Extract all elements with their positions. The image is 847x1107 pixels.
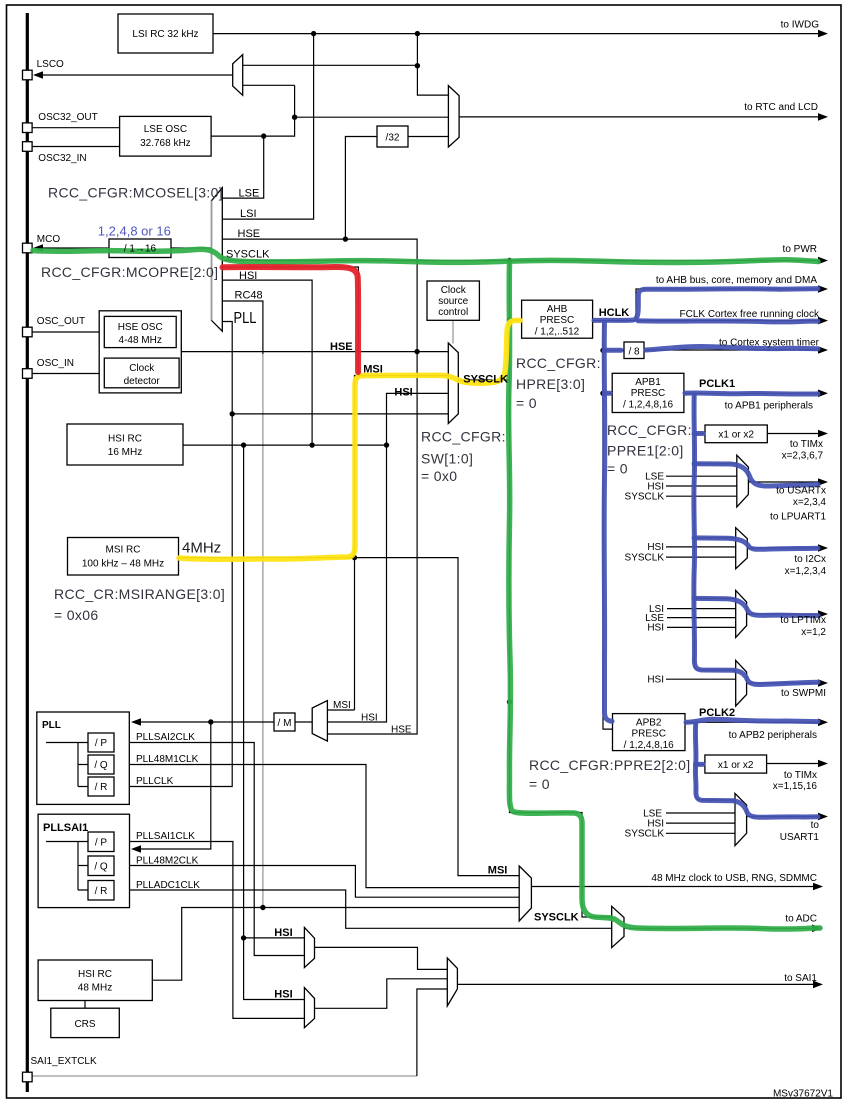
blue highlight: PCLK1 line (605, 393, 819, 394)
svg-text:to I2Cx: to I2Cx (794, 554, 826, 565)
wire: MCO output through prescaler to MCO port (36, 247, 212, 249)
svg-text:MCO: MCO (37, 234, 61, 245)
port LSCO (23, 70, 33, 80)
svg-text:4MHz: 4MHz (182, 540, 221, 557)
wire: /32 divider output to RTC mux (408, 136, 448, 138)
yellow highlight: MSI to SYSCLK trace (179, 320, 520, 559)
mux: I2Cx clock selector (736, 528, 748, 569)
svg-text:32.768 kHz: 32.768 kHz (140, 138, 191, 149)
mux: LSCO selector (233, 55, 243, 96)
wire: PLL input of SYSCLK mux (232, 413, 448, 415)
svg-text:to SAI1: to SAI1 (784, 973, 817, 984)
svg-text:to LPUART1: to LPUART1 (770, 512, 826, 523)
wire: HSI branch to MCOSEL mux (222, 280, 312, 445)
svg-text:SW[1:0]: SW[1:0] (421, 451, 473, 467)
wire: HCLK line (FCLK output) (593, 320, 820, 322)
blue highlight: USART1 mux output (734, 801, 818, 817)
svg-text:HSE: HSE (238, 228, 261, 240)
wire: OSC_OUT to HSE OSC (32, 331, 99, 333)
svg-text:x1 or x2: x1 or x2 (718, 760, 754, 771)
wire: PLLSAI1CLK from PLLSAI1 /P to SAI premux 2 (114, 842, 304, 1019)
blue highlight: PCLK2 rail to USART1 mux (695, 724, 733, 801)
svg-text:HSI: HSI (274, 927, 292, 939)
svg-text:PRESC: PRESC (631, 388, 665, 399)
svg-text:to Cortex system timer: to Cortex system timer (719, 338, 820, 349)
svg-text:OSC32_IN: OSC32_IN (38, 153, 86, 164)
box: APB2 PRESC (613, 714, 686, 751)
svg-text:RCC_CR:MSIRANGE[3:0]: RCC_CR:MSIRANGE[3:0] (54, 586, 225, 602)
wire: LSCO mux input 2 (LSE) (243, 84, 295, 86)
svg-text:PCLK1: PCLK1 (699, 378, 735, 390)
svg-text:APB2: APB2 (636, 718, 662, 729)
svg-text:to APB2 peripherals: to APB2 peripherals (729, 730, 817, 741)
svg-text:16 MHz: 16 MHz (108, 447, 142, 458)
wire: MSI up to SYSCLK mux input (355, 376, 449, 711)
port OSC32_IN (23, 142, 33, 152)
svg-text:= 0x06: = 0x06 (54, 607, 99, 623)
box: CRS (51, 1008, 120, 1037)
svg-text:OSC32_OUT: OSC32_OUT (38, 112, 97, 123)
svg-text:/ R: / R (95, 886, 108, 897)
wire: I2C mux PCLK1 input (694, 537, 735, 539)
svg-text:48 MHz clock to USB, RNG, SDMM: 48 MHz clock to USB, RNG, SDMMC (651, 873, 817, 884)
svg-text:to TIMx: to TIMx (784, 770, 817, 781)
wire: LSI branch down to MCOSEL mux LSI input (222, 34, 313, 220)
svg-text:x=2,3,4: x=2,3,4 (793, 497, 827, 508)
wire: APB1 PRESC input (603, 392, 612, 394)
box: /M divider (274, 713, 295, 731)
wire: x1 or x2 output to TIMx (767, 433, 820, 435)
svg-text:to APB1 peripherals: to APB1 peripherals (725, 401, 813, 412)
wire: PLL block internal feed (46, 743, 88, 787)
port SAI1_EXTCLK (23, 1072, 33, 1082)
svg-text:PRESC: PRESC (631, 729, 665, 740)
svg-text:SYSCLK: SYSCLK (226, 249, 270, 261)
mux: PLL source selector (312, 701, 327, 742)
mux: USARTx clock selector (737, 455, 749, 507)
mux MCOSEL gray left edge (211, 201, 213, 321)
svg-text:source: source (438, 296, 468, 307)
wire: x1 or x2 input (APB1) (694, 433, 705, 435)
svg-text:x=1,15,16: x=1,15,16 (773, 781, 818, 792)
blue highlight: LPTIM mux branch and output (694, 598, 818, 615)
svg-text:MSI: MSI (333, 700, 351, 711)
svg-text:PLLADC1CLK: PLLADC1CLK (136, 880, 200, 891)
svg-text:/ 1,2,4,8,16: / 1,2,4,8,16 (624, 740, 674, 751)
wire: x1 or x2 input (APB2) (696, 763, 705, 765)
wire: /8 divider output to Cortex system timer (644, 349, 820, 351)
box: LSI RC 32 kHz oscillator (118, 14, 213, 53)
wire: USART1 mux LSE/HSI/SYSCLK stubs (666, 813, 735, 833)
wire: USART1 mux output (747, 816, 820, 818)
green highlight: SYSCLK rail down to ADC (509, 264, 820, 929)
box: MCO prescaler /1..16 (109, 239, 171, 258)
svg-text:/ P: / P (95, 838, 108, 849)
svg-text:PLLSAI1: PLLSAI1 (43, 822, 88, 834)
svg-text:PPRE1[2:0]: PPRE1[2:0] (607, 443, 684, 459)
svg-text:48 MHz: 48 MHz (78, 983, 112, 994)
wire: PCLK1 rail down to SWPMI mux (694, 393, 735, 670)
wire: SWPMI mux output (747, 682, 820, 684)
mux: 48 MHz clock selector (519, 866, 531, 921)
wire: branch down into PLLSAI1 block (140, 722, 211, 849)
blue highlight: HCLK to AHB bus (594, 289, 818, 321)
box: MSI RC (68, 538, 179, 576)
svg-text:/ 1,2,..512: / 1,2,..512 (535, 327, 580, 338)
svg-text:HSI: HSI (361, 713, 378, 724)
box: HSI RC 48 MHz (38, 960, 152, 1001)
svg-text:SAI1_EXTCLK: SAI1_EXTCLK (31, 1056, 97, 1067)
box: PLLSAI1 /R divider (88, 881, 114, 901)
svg-text:MSI: MSI (363, 364, 383, 376)
svg-text:/ P: / P (95, 738, 108, 749)
svg-text:PLLCLK: PLLCLK (136, 776, 174, 787)
wire: RC48/HSI48 vertical (gray part) (262, 354, 264, 907)
wire: HSI down to PLL source mux input (327, 445, 386, 722)
box: PLLSAI1 block (38, 814, 129, 907)
svg-text:x=2,3,6,7: x=2,3,6,7 (782, 451, 824, 462)
blue highlight: I2C mux branch and output (694, 538, 818, 549)
port OSC32_OUT (23, 123, 33, 133)
blue highlight: FCLK line (638, 321, 818, 322)
wire: /M output into PLL block (140, 721, 295, 723)
wire: PLLCLK up to MCOSEL mux and to SYSCLK mux (114, 322, 232, 787)
wire: PLL source mux output to /M divider (295, 721, 312, 723)
svg-text:PLL: PLL (234, 310, 257, 327)
wire: MSI input of PLL source mux (327, 709, 354, 711)
wire: SYSCLK rail down to ADC mux (510, 261, 612, 918)
svg-text:x=1,2: x=1,2 (801, 627, 826, 638)
svg-text:RCC_CFGR:: RCC_CFGR: (607, 422, 692, 438)
svg-text:detector: detector (124, 376, 161, 387)
svg-text:to AHB bus, core, memory and D: to AHB bus, core, memory and DMA (656, 275, 818, 286)
svg-text:= 0: = 0 (516, 395, 537, 411)
wire: PLLSAI2CLK from PLL /P to SAI premux 1 (114, 743, 304, 956)
svg-text:100 kHz – 48 MHz: 100 kHz – 48 MHz (82, 559, 164, 570)
svg-text:LSE: LSE (239, 188, 260, 200)
wire: HSI down to SAI premuxes (244, 445, 305, 999)
wire: HSE down to PLL source mux (327, 352, 417, 734)
box: LSE OSC 32.768 kHz (120, 116, 212, 156)
svg-text:OSC_IN: OSC_IN (37, 358, 74, 369)
arrowheads right-pointing (812, 30, 828, 988)
wire: LPTIM mux output (747, 613, 820, 615)
svg-text:RC48: RC48 (235, 290, 263, 302)
wire: PLLADC1CLK from PLLSAI1 /R to ADC mux (114, 890, 612, 928)
mux: SAI premux 1 (304, 927, 314, 967)
svg-text:HSI RC: HSI RC (108, 434, 142, 445)
svg-text:AHB: AHB (547, 304, 568, 315)
svg-text:HSI: HSI (239, 270, 257, 282)
mux: ADC clock selector (612, 906, 624, 947)
wire: PCLK1 output line (684, 392, 820, 394)
wire: OSC32_OUT to LSE OSC (32, 127, 120, 129)
wire: AHB PRESC input from SYSCLK rail (510, 319, 522, 321)
wire: SAI premux2 output to SAI output mux (315, 979, 448, 1009)
svg-text:SYSCLK: SYSCLK (625, 492, 665, 503)
svg-text:to PWR: to PWR (783, 244, 817, 255)
wire: OSC_IN to HSE OSC (32, 373, 99, 375)
svg-text:to IWDG: to IWDG (781, 20, 820, 31)
wire: SWPMI mux HSI stub (666, 678, 736, 680)
svg-text:RCC_CFGR:: RCC_CFGR: (421, 429, 506, 445)
svg-text:to RTC and LCD: to RTC and LCD (744, 102, 818, 113)
svg-text:to: to (811, 820, 820, 831)
svg-text:USART1: USART1 (780, 832, 820, 843)
svg-text:to SWPMI: to SWPMI (781, 688, 826, 699)
svg-text:HSE: HSE (391, 725, 412, 736)
mux: USART1 clock selector (735, 793, 747, 845)
box: /32 divider (377, 126, 408, 147)
wire: LSE line to RTC mux (295, 116, 449, 118)
svg-text:PLL48M2CLK: PLL48M2CLK (136, 856, 199, 867)
wire: USART mux LSE/HSI/SYSCLK stubs (666, 476, 737, 496)
svg-text:RCC_CFGR:MCOSEL[3:0]: RCC_CFGR:MCOSEL[3:0] (48, 185, 223, 201)
box: Clock source control (427, 281, 479, 320)
box: x1 or x2 (APB2 timers) (705, 755, 767, 773)
svg-text:/ M: / M (278, 718, 292, 729)
svg-text:/32: /32 (386, 133, 400, 144)
wire: LSE OSC output (211, 85, 295, 136)
svg-text:HSI: HSI (647, 675, 664, 686)
wire: LSCO mux input 1 (LSI) (243, 64, 418, 66)
svg-text:HSI: HSI (647, 623, 664, 634)
box: APB1 PRESC (612, 373, 684, 412)
svg-text:LSE OSC: LSE OSC (144, 124, 187, 135)
wire: HSI input of SAI premux 1 (244, 937, 305, 939)
wire: HSI48 RC output to 48MHz mux (152, 908, 519, 981)
wire: HSI up to SYSCLK mux input (387, 393, 449, 445)
box: /8 divider (624, 342, 644, 359)
wire: SAI premux1 output to SAI output mux (315, 947, 448, 969)
wire: LSCO mux output to LSCO port (36, 74, 233, 76)
box: Clock detector (104, 358, 179, 388)
svg-text:1,2,4,8 or 16: 1,2,4,8 or 16 (98, 224, 171, 239)
blue highlight: x1 or x2 stub (APB1) (694, 431, 703, 436)
wire: PCLK2 output line (685, 721, 820, 723)
svg-text:Clock: Clock (129, 363, 155, 374)
mux: SWPMI clock selector (736, 660, 747, 706)
box: PLL /Q divider (88, 755, 114, 774)
svg-text:RCC_CFGR:MCOPRE[2:0]: RCC_CFGR:MCOPRE[2:0] (41, 264, 218, 280)
svg-text:/ 1→16: / 1→16 (124, 244, 157, 255)
svg-text:MSI RC: MSI RC (106, 545, 141, 556)
svg-text:LSI RC 32 kHz: LSI RC 32 kHz (132, 29, 198, 40)
svg-text:PCLK2: PCLK2 (699, 707, 735, 719)
wire: PLLSAI1 block internal feed (46, 842, 88, 891)
mux: SAI premux 2 (304, 988, 314, 1028)
wire: LSE branch down to MCOSEL mux LSE input (222, 136, 263, 198)
svg-text:HSE OSC: HSE OSC (118, 322, 163, 333)
svg-text:CRS: CRS (74, 1019, 95, 1030)
wire: LPTIM mux PCLK1 input (694, 597, 735, 599)
box: HSE oscillator outer (99, 311, 181, 393)
box: PLL /P divider (88, 733, 114, 752)
wire: USART mux PCLK1 input (694, 463, 736, 465)
blue highlight: /8 to Cortex system timer (605, 346, 819, 350)
wire: HCLK rail down to APB2 PRESC (603, 321, 613, 729)
svg-text:to TIMx: to TIMx (790, 439, 823, 450)
svg-text:to USARTx: to USARTx (776, 486, 826, 497)
wire: LSI branch to RTC mux input (417, 34, 448, 96)
svg-text:SYSCLK: SYSCLK (534, 912, 579, 924)
wire: I2C mux HSI/SYSCLK stubs (666, 547, 736, 557)
wire: ADC mux output (624, 927, 814, 929)
svg-text:Clock: Clock (441, 285, 467, 296)
wire: branch up to AHB bus output (636, 289, 820, 321)
svg-text:/ Q: / Q (94, 862, 108, 873)
svg-text:x=1,2,3,4: x=1,2,3,4 (785, 566, 827, 577)
blue highlight: HCLK rail down to APB2 (604, 323, 612, 721)
wire: x1 or x2 output to TIMx (APB2) (767, 763, 820, 765)
box: PLLSAI1 /Q divider (88, 856, 114, 876)
wire: CRS link to HSI48 (84, 1001, 86, 1009)
wire: RTC mux output to RTC and LCD (459, 116, 820, 118)
wire: OSC32_IN to LSE OSC (32, 146, 120, 148)
port MCO (23, 243, 33, 253)
svg-text:HSE: HSE (330, 341, 353, 353)
port OSC_IN (23, 369, 33, 379)
port OSC_OUT (23, 327, 33, 337)
box: PLLSAI1 /P divider (88, 832, 114, 852)
svg-text:PLLSAI2CLK: PLLSAI2CLK (136, 732, 195, 743)
arrowheads left-pointing (33, 71, 141, 853)
wire: PLL48M2CLK from PLLSAI1 /Q to 48MHz mux (114, 866, 519, 898)
wire: MSI RC output line to 48MHz mux (179, 558, 520, 876)
blue highlight: PCLK1 rail to SWPMI mux (694, 396, 734, 671)
svg-text:to LPTIMx: to LPTIMx (780, 615, 826, 626)
svg-text:HSI: HSI (274, 989, 292, 1001)
wire: 48MHz mux output to USB RNG SDMMC (531, 886, 815, 888)
mux: RTC and LCD clock selector (448, 86, 459, 147)
svg-text:MSv37672V1: MSv37672V1 (773, 1089, 833, 1100)
box: AHB PRESC (522, 300, 593, 338)
blue highlight: SWPMI mux output (735, 671, 818, 685)
svg-text:LSCO: LSCO (37, 59, 64, 70)
wire: SYSCLK stub into ADC mux (588, 916, 612, 918)
box: PLL block (37, 712, 130, 804)
svg-text:HPRE[3:0]: HPRE[3:0] (516, 376, 585, 392)
wire: USART mux output (748, 481, 820, 483)
wire: SAI1_EXTCLK line (gray) (32, 1075, 417, 1077)
svg-text:PLL48M1CLK: PLL48M1CLK (136, 754, 199, 765)
blue highlight: x1 or x2 stub (APB2) (696, 762, 703, 767)
svg-text:SYSCLK: SYSCLK (625, 552, 665, 563)
wire: HSI RC output line (183, 444, 387, 446)
box: HSE OSC 4-48 MHz (104, 316, 176, 347)
chip boundary line (26, 13, 29, 1092)
svg-text:PRESC: PRESC (540, 315, 574, 326)
box: HSI RC 16 MHz (67, 424, 183, 465)
mux: SAI1 output selector (447, 958, 457, 1006)
svg-text:to ADC: to ADC (785, 914, 817, 925)
box: x1 or x2 (APB1 timers) (705, 425, 767, 443)
wire: MCOSEL HSE input from HSE line (222, 239, 417, 352)
svg-text:RCC_CFGR:PPRE2[2:0]: RCC_CFGR:PPRE2[2:0] (529, 757, 690, 773)
wire: SAI output mux output to SAI1 (457, 983, 815, 985)
svg-text:HCLK: HCLK (599, 307, 630, 319)
svg-text:PLL: PLL (42, 720, 61, 731)
mux: MCOSEL selector (212, 188, 223, 332)
mux: SYSCLK source selector (448, 343, 458, 424)
wire: I2C mux output (747, 547, 820, 549)
svg-text:/ Q: / Q (94, 760, 108, 771)
svg-text:SYSCLK: SYSCLK (625, 829, 665, 840)
svg-text:= 0x0: = 0x0 (421, 468, 457, 484)
svg-text:/ R: / R (95, 782, 108, 793)
svg-text:HSI RC: HSI RC (78, 969, 112, 980)
wire: /8 divider input (603, 349, 624, 351)
wire: clock source control link (gray) (452, 320, 454, 343)
wire: LPTIM mux LSI/LSE/HSI stubs (667, 609, 736, 628)
wire: SYSCLK mux output to rail (458, 379, 509, 381)
svg-text:FCLK Cortex free running clock: FCLK Cortex free running clock (679, 309, 820, 320)
svg-text:= 0: = 0 (607, 461, 628, 477)
svg-text:LSI: LSI (240, 208, 257, 220)
svg-text:HSI: HSI (394, 387, 412, 399)
svg-text:/ 8: / 8 (628, 347, 640, 358)
wire: SYSCLK line to MCOSEL and to PWR (222, 260, 820, 262)
svg-text:= 0: = 0 (529, 776, 550, 792)
svg-text:PLLSAI1CLK: PLLSAI1CLK (136, 831, 195, 842)
blue highlight: PCLK2 line (686, 719, 818, 722)
wire: MSI branch to MCOSEL mux (222, 267, 358, 376)
svg-text:x1 or x2: x1 or x2 (718, 430, 754, 441)
svg-text:OSC_OUT: OSC_OUT (37, 316, 85, 327)
svg-text:APB1: APB1 (635, 377, 661, 388)
mux: LPTIMx clock selector (736, 590, 747, 637)
svg-text:MSI: MSI (488, 865, 508, 877)
wire: HSE OSC output to SYSCLK mux (181, 351, 448, 353)
green highlight: SYSCLK trace MCO to PWR (33, 249, 818, 262)
red highlight: MSI to MCO trace (223, 267, 359, 372)
svg-text:4-48 MHz: 4-48 MHz (119, 335, 162, 346)
svg-text:SYSCLK: SYSCLK (463, 374, 508, 386)
box: PLL /R divider (88, 777, 114, 796)
wire: /32 divider input from HSE (345, 137, 377, 240)
wire: PCLK2 rail down to USART1 mux (696, 722, 735, 800)
svg-text:control: control (438, 307, 468, 318)
wire: LSI RC output to IWDG (213, 33, 820, 35)
wire: RC48 branch to MCOSEL mux (black part) (222, 301, 263, 354)
wire: PLL48M1CLK from PLL /Q to 48MHz mux (114, 765, 519, 888)
svg-text:RCC_CFGR:: RCC_CFGR: (516, 355, 601, 371)
svg-text:/ 1,2,4,8,16: / 1,2,4,8,16 (623, 400, 673, 411)
blue highlight: USART mux branch and output (694, 464, 818, 486)
